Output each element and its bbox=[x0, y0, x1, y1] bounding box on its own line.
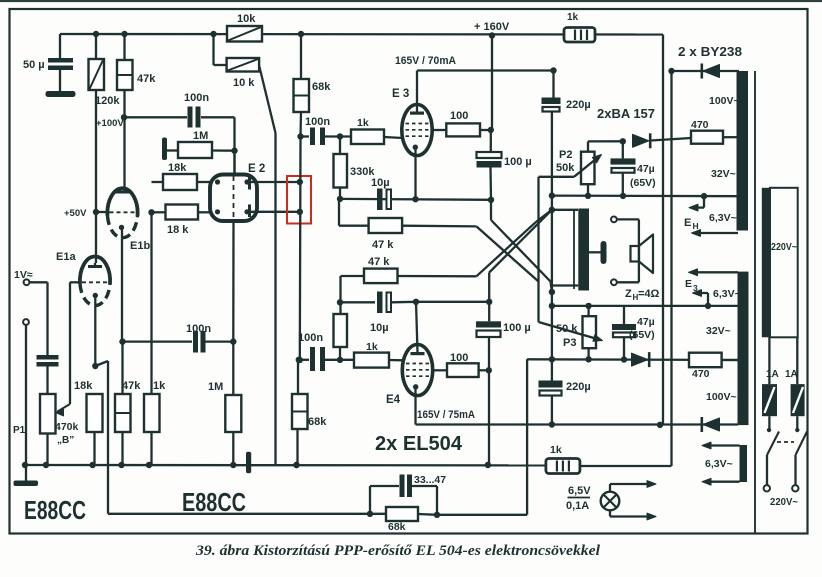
svg-text:165V / 75mA: 165V / 75mA bbox=[417, 409, 475, 421]
svg-text:E 3: E 3 bbox=[392, 88, 409, 100]
svg-text:(65V): (65V) bbox=[629, 329, 655, 341]
svg-text:50k: 50k bbox=[556, 162, 575, 174]
svg-text:10k: 10k bbox=[237, 13, 256, 25]
svg-text:„B”: „B” bbox=[57, 435, 74, 446]
svg-text:47 k: 47 k bbox=[372, 239, 394, 251]
svg-text:47µ: 47µ bbox=[637, 316, 655, 328]
svg-text:+100V: +100V bbox=[96, 118, 124, 129]
svg-text:470: 470 bbox=[692, 368, 710, 380]
svg-text:100V~: 100V~ bbox=[709, 95, 740, 107]
svg-text:P3: P3 bbox=[563, 337, 576, 349]
svg-text:1A: 1A bbox=[785, 369, 798, 380]
svg-text:1k: 1k bbox=[357, 117, 369, 129]
svg-text:E1b: E1b bbox=[130, 240, 150, 252]
svg-text:100n: 100n bbox=[305, 116, 330, 128]
svg-text:=4Ω: =4Ω bbox=[638, 288, 660, 300]
svg-text:220V~: 220V~ bbox=[770, 496, 798, 508]
svg-text:H: H bbox=[693, 221, 699, 231]
svg-text:E88CC: E88CC bbox=[182, 487, 246, 517]
svg-text:P2: P2 bbox=[559, 149, 572, 161]
svg-text:10 k: 10 k bbox=[233, 77, 255, 89]
svg-text:1k: 1k bbox=[366, 341, 378, 353]
svg-text:100n: 100n bbox=[184, 92, 209, 104]
svg-text:1A: 1A bbox=[766, 369, 779, 380]
svg-text:220V~: 220V~ bbox=[771, 241, 797, 253]
svg-text:2xBA 157: 2xBA 157 bbox=[597, 106, 655, 121]
svg-text:165V / 70mA: 165V / 70mA bbox=[395, 55, 456, 67]
svg-text:1k: 1k bbox=[550, 444, 562, 456]
svg-text:120k: 120k bbox=[95, 95, 120, 107]
svg-text:33...47: 33...47 bbox=[414, 474, 446, 486]
svg-text:18 k: 18 k bbox=[167, 224, 189, 236]
svg-text:E: E bbox=[685, 278, 692, 290]
svg-text:P1: P1 bbox=[13, 425, 26, 436]
svg-text:+ 160V: + 160V bbox=[474, 21, 510, 33]
svg-text:6,3V~: 6,3V~ bbox=[713, 288, 741, 300]
svg-text:1k: 1k bbox=[153, 380, 166, 392]
svg-text:68k: 68k bbox=[388, 521, 406, 533]
svg-text:32V~: 32V~ bbox=[711, 168, 736, 180]
svg-text:47k: 47k bbox=[122, 380, 141, 392]
svg-text:6,3V~: 6,3V~ bbox=[705, 458, 733, 470]
svg-text:1M: 1M bbox=[208, 381, 223, 393]
svg-text:E1a: E1a bbox=[56, 251, 76, 263]
svg-text:E4: E4 bbox=[386, 394, 401, 406]
svg-text:47 k: 47 k bbox=[368, 256, 390, 268]
svg-text:47µ: 47µ bbox=[637, 163, 655, 175]
svg-text:470: 470 bbox=[691, 119, 709, 131]
svg-text:2 x BY238: 2 x BY238 bbox=[678, 44, 742, 59]
svg-text:470k: 470k bbox=[55, 421, 79, 433]
svg-text:100n: 100n bbox=[186, 323, 211, 335]
svg-text:10µ: 10µ bbox=[370, 322, 389, 334]
svg-text:50 µ: 50 µ bbox=[23, 59, 45, 71]
svg-text:68k: 68k bbox=[308, 416, 327, 428]
svg-text:6,5V: 6,5V bbox=[568, 485, 591, 497]
svg-text:220µ: 220µ bbox=[566, 99, 591, 111]
svg-text:(65V): (65V) bbox=[630, 177, 656, 189]
svg-text:E 2: E 2 bbox=[248, 163, 265, 175]
svg-text:220µ: 220µ bbox=[566, 381, 591, 393]
svg-text:6,3V~: 6,3V~ bbox=[709, 212, 737, 224]
svg-text:10µ: 10µ bbox=[371, 177, 390, 189]
svg-text:18k: 18k bbox=[168, 162, 187, 174]
svg-text:Z: Z bbox=[625, 288, 632, 300]
svg-text:+50V: +50V bbox=[64, 208, 87, 219]
svg-text:18k: 18k bbox=[74, 380, 93, 392]
svg-text:32V~: 32V~ bbox=[706, 325, 731, 337]
svg-text:47k: 47k bbox=[137, 73, 156, 85]
svg-text:100 µ: 100 µ bbox=[503, 322, 531, 334]
svg-text:1k: 1k bbox=[567, 12, 579, 23]
svg-text:2x EL504: 2x EL504 bbox=[375, 433, 463, 455]
svg-text:100n: 100n bbox=[298, 332, 323, 344]
svg-text:1M: 1M bbox=[193, 130, 208, 142]
svg-text:0,1A: 0,1A bbox=[566, 500, 589, 512]
svg-text:68k: 68k bbox=[312, 81, 331, 93]
svg-text:100V~: 100V~ bbox=[706, 391, 737, 403]
svg-text:100 µ: 100 µ bbox=[504, 156, 532, 168]
svg-text:E88CC: E88CC bbox=[24, 495, 86, 525]
svg-text:1V≈: 1V≈ bbox=[14, 269, 33, 281]
svg-text:100: 100 bbox=[450, 110, 468, 122]
svg-text:E: E bbox=[684, 217, 691, 229]
svg-text:39. ábra Kistorzítású PPP-erős: 39. ábra Kistorzítású PPP-erősítő EL 504… bbox=[195, 543, 601, 559]
